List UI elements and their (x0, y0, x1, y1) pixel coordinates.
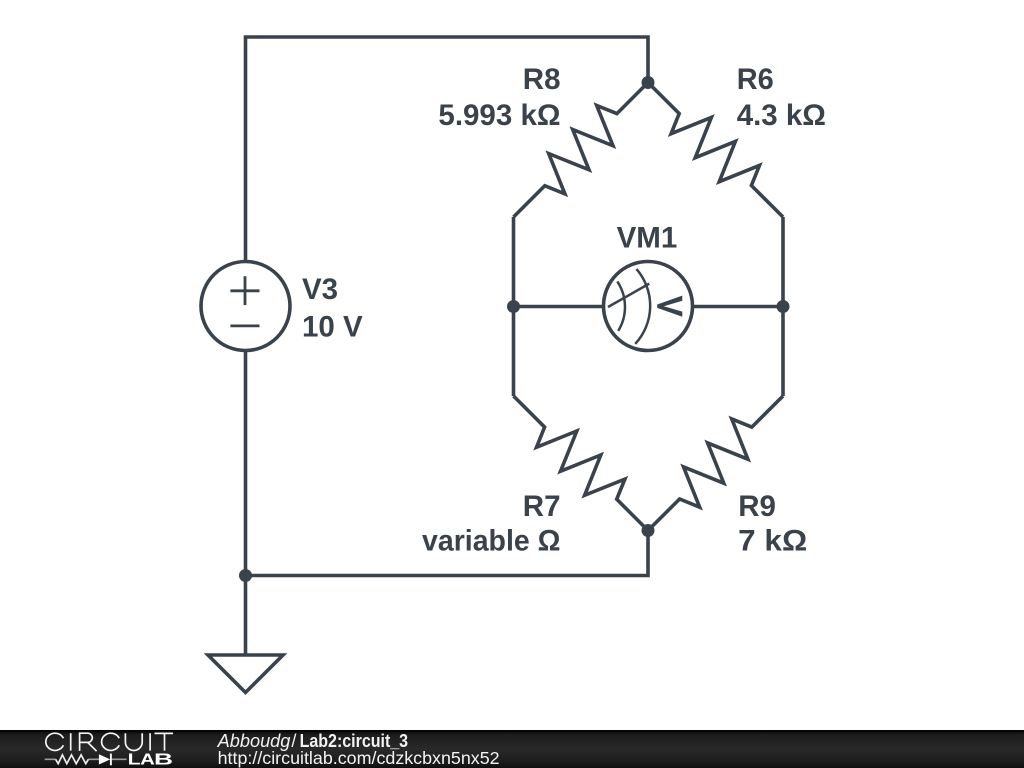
svg-text:R9: R9 (738, 490, 776, 523)
svg-text:http://circuitlab.com/cdzkcbxn: http://circuitlab.com/cdzkcbxn5nx52 (218, 748, 500, 768)
svg-text:10 V: 10 V (302, 310, 363, 343)
svg-text:VM1: VM1 (617, 221, 678, 254)
svg-text:L: L (128, 752, 141, 768)
svg-text:5.993 kΩ: 5.993 kΩ (438, 99, 560, 132)
svg-text:R8: R8 (523, 63, 561, 96)
svg-text:R6: R6 (737, 63, 774, 96)
svg-text:4.3 kΩ: 4.3 kΩ (737, 99, 826, 132)
svg-text:7 kΩ: 7 kΩ (738, 524, 807, 557)
svg-text:R7: R7 (523, 490, 561, 523)
svg-text:V3: V3 (302, 273, 338, 306)
svg-text:B: B (154, 752, 173, 768)
svg-text:variable Ω: variable Ω (422, 524, 561, 557)
